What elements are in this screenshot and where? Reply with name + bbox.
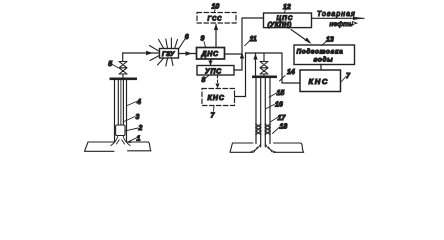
box CPS (264, 13, 312, 29)
label 7 right (341, 73, 351, 82)
svg-text:Товарная: Товарная (317, 11, 356, 18)
svg-text:(УКПН): (УКПН) (268, 22, 292, 29)
label 17 (271, 115, 287, 122)
label 9 (201, 36, 206, 48)
svg-text:11: 11 (250, 36, 257, 43)
label 11 (245, 36, 257, 46)
box DNS (197, 48, 225, 60)
svg-text:1: 1 (137, 136, 141, 143)
GZU bottom rays (158, 59, 174, 67)
svg-text:8: 8 (202, 77, 206, 84)
box KNS 14 (300, 70, 341, 92)
svg-text:КНС: КНС (208, 95, 225, 102)
box KNS dashed (202, 89, 235, 106)
svg-text:6: 6 (185, 34, 189, 41)
wire DNS to UPS arrow down (208, 59, 212, 65)
svg-text:12: 12 (283, 4, 291, 11)
wellhead flange bar right (252, 76, 277, 79)
christmas tree left well (119, 62, 127, 78)
riser to CPS with arrow (240, 18, 264, 59)
wire KNS dashed to injection line (235, 53, 246, 97)
label 2 (126, 125, 143, 132)
label 14 (280, 69, 295, 81)
arrow after neft (353, 22, 357, 25)
label 16 (266, 102, 283, 109)
label 12 (283, 4, 291, 13)
wire DNS right to riser (225, 53, 243, 55)
svg-text:15: 15 (277, 90, 285, 97)
box GZU (160, 49, 179, 59)
tubing shoe flares left well (111, 136, 130, 146)
ground left piece (left well) (85, 142, 115, 151)
svg-text:ДНС: ДНС (201, 51, 220, 58)
wire DNS to GSS arrow up (214, 24, 218, 47)
label 7 bottom (211, 106, 216, 120)
ground right piece (left well) (128, 142, 151, 151)
label 4 (127, 99, 141, 106)
box water preparation (294, 45, 355, 65)
label 13 (322, 37, 334, 46)
box UPS (197, 66, 234, 76)
wire GZU to DNS with arrow (179, 51, 196, 55)
ground right piece (right well) (274, 143, 304, 152)
wire annulus drop with arrow (253, 53, 257, 76)
svg-text:УПС: УПС (205, 68, 222, 75)
wire CPS output line with arrow (312, 17, 365, 20)
svg-text:КНС: КНС (309, 77, 329, 86)
wire flowline left well to GZU (123, 51, 159, 62)
svg-text:13: 13 (326, 37, 334, 44)
packer right well (256, 124, 271, 135)
wire injection header (246, 52, 283, 54)
svg-text:16: 16 (275, 102, 283, 109)
pump left well (116, 125, 125, 136)
svg-text:ГСС: ГСС (208, 17, 223, 23)
wire CPS to water prep diagonal arrow (291, 30, 312, 44)
casing right well (256, 78, 270, 143)
svg-text:воды: воды (314, 56, 334, 64)
svg-text:7: 7 (346, 73, 351, 80)
tubing right well (261, 78, 266, 147)
svg-text:Подготовка: Подготовка (297, 48, 344, 56)
label 18 (273, 123, 288, 133)
wire UPS to KNS dashed arrow (215, 76, 219, 89)
svg-text:ГЗУ: ГЗУ (162, 51, 175, 58)
GZU top rays (159, 38, 187, 49)
svg-text:4: 4 (136, 99, 141, 106)
svg-text:7: 7 (211, 113, 216, 120)
box GSS dashed (197, 13, 236, 24)
label 1 (127, 136, 141, 143)
svg-text:нефть: нефть (330, 21, 354, 28)
rod string left well (120, 80, 122, 125)
christmas tree right well (260, 53, 268, 76)
tubing shoe flares right well (250, 144, 276, 153)
wire KNS14 to wellhead (282, 53, 300, 83)
tubing left well (118, 80, 123, 125)
svg-text:17: 17 (278, 115, 287, 122)
label 3 (124, 114, 140, 122)
svg-text:5: 5 (108, 61, 112, 68)
label 8 (202, 76, 209, 84)
wellhead flange bar left (110, 78, 138, 81)
label 10 (212, 4, 220, 13)
svg-text:2: 2 (138, 125, 143, 132)
wire UPS right to riser (234, 54, 242, 70)
svg-text:14: 14 (287, 69, 295, 76)
wire water prep to KNS14 (320, 65, 322, 71)
ground left piece (right well) (230, 143, 253, 152)
label 15 (269, 90, 284, 97)
label 5 (108, 61, 118, 68)
GZU left rays (150, 46, 160, 61)
svg-text:3: 3 (136, 114, 140, 121)
svg-text:18: 18 (280, 123, 288, 130)
casing left well (115, 80, 127, 141)
